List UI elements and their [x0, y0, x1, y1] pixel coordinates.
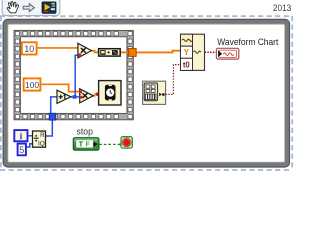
wire dice to tunnel: [120, 51, 133, 53]
svg-text:10: 10: [24, 44, 34, 54]
hand pan icon: [7, 2, 18, 13]
wire multiply to dice: [91, 51, 99, 53]
waveform dotted wire to chart: [205, 51, 217, 53]
svg-text:F: F: [86, 142, 91, 149]
svg-text:t0: t0: [183, 60, 191, 69]
numeric constant 10: [22, 42, 37, 54]
svg-text:i: i: [20, 132, 23, 143]
top multiply node: [78, 43, 92, 58]
labview run icon: [42, 2, 56, 13]
svg-text:IQ: IQ: [38, 141, 45, 148]
selection marquee dashed rectangle: [0, 16, 292, 170]
orange tunnel on for loop right border: [129, 48, 137, 56]
blue junction dot: [73, 95, 77, 99]
blue tunnel on for loop bottom border: [49, 113, 56, 120]
wire 100 elbow to lower multiply: [41, 84, 80, 91]
wire tunnel to build waveform Y: [136, 51, 181, 53]
svg-text:2013: 2013: [273, 3, 291, 13]
increment +1 node: [57, 90, 71, 103]
wait ms clock node: [99, 81, 121, 105]
build waveform node: [181, 34, 205, 70]
svg-text:stop: stop: [77, 127, 93, 137]
coercion dot wait clock input: [96, 93, 99, 96]
lower multiply node: [80, 89, 94, 103]
wire lower multiply to wait clock: [93, 94, 99, 96]
numeric constant 100: [24, 78, 41, 90]
iteration terminal i constant: [14, 130, 27, 143]
svg-text:R: R: [40, 132, 45, 139]
blue wire plus1 input riser from tunnel: [51, 97, 57, 114]
random number dice node: [99, 49, 121, 56]
blue wire 5 to QR: [25, 144, 33, 147]
for loop filmstrip border: [14, 30, 133, 119]
constant 5: [18, 144, 26, 156]
loop condition terminal (stop sign): [121, 137, 132, 148]
coercion dot lower multiply lower input: [80, 96, 83, 99]
timestamp dotted wire date time to build waveform t0: [166, 65, 181, 95]
coercion dot lower multiply upper input: [79, 91, 82, 94]
svg-text:Waveform Chart: Waveform Chart: [217, 37, 278, 47]
svg-text:T: T: [79, 142, 84, 149]
waveform chart indicator terminal: [216, 48, 238, 59]
quotient remainder node: [33, 131, 46, 148]
toolbar chip: [2, 0, 60, 16]
blue wire below loop tunnel to QR remainder: [45, 120, 52, 136]
while loop frame (outer grey rounded frame): [3, 19, 289, 167]
blue riser from junction to top multiply: [75, 55, 78, 97]
blue wire i to QR: [27, 135, 33, 137]
coercion dot top multiply: [78, 53, 81, 56]
boolean dashed wire stop to condition: [99, 143, 121, 145]
forward arrow icon: [23, 4, 34, 12]
get date time node: [143, 81, 166, 104]
svg-text:100: 100: [25, 80, 40, 90]
blue wire plus1 out to junction to lower multiply: [71, 96, 80, 98]
stop boolean control terminal: [73, 138, 99, 151]
svg-text:Y: Y: [184, 48, 190, 57]
svg-text:5: 5: [19, 145, 24, 155]
wire 10 to multiply: [37, 47, 79, 49]
